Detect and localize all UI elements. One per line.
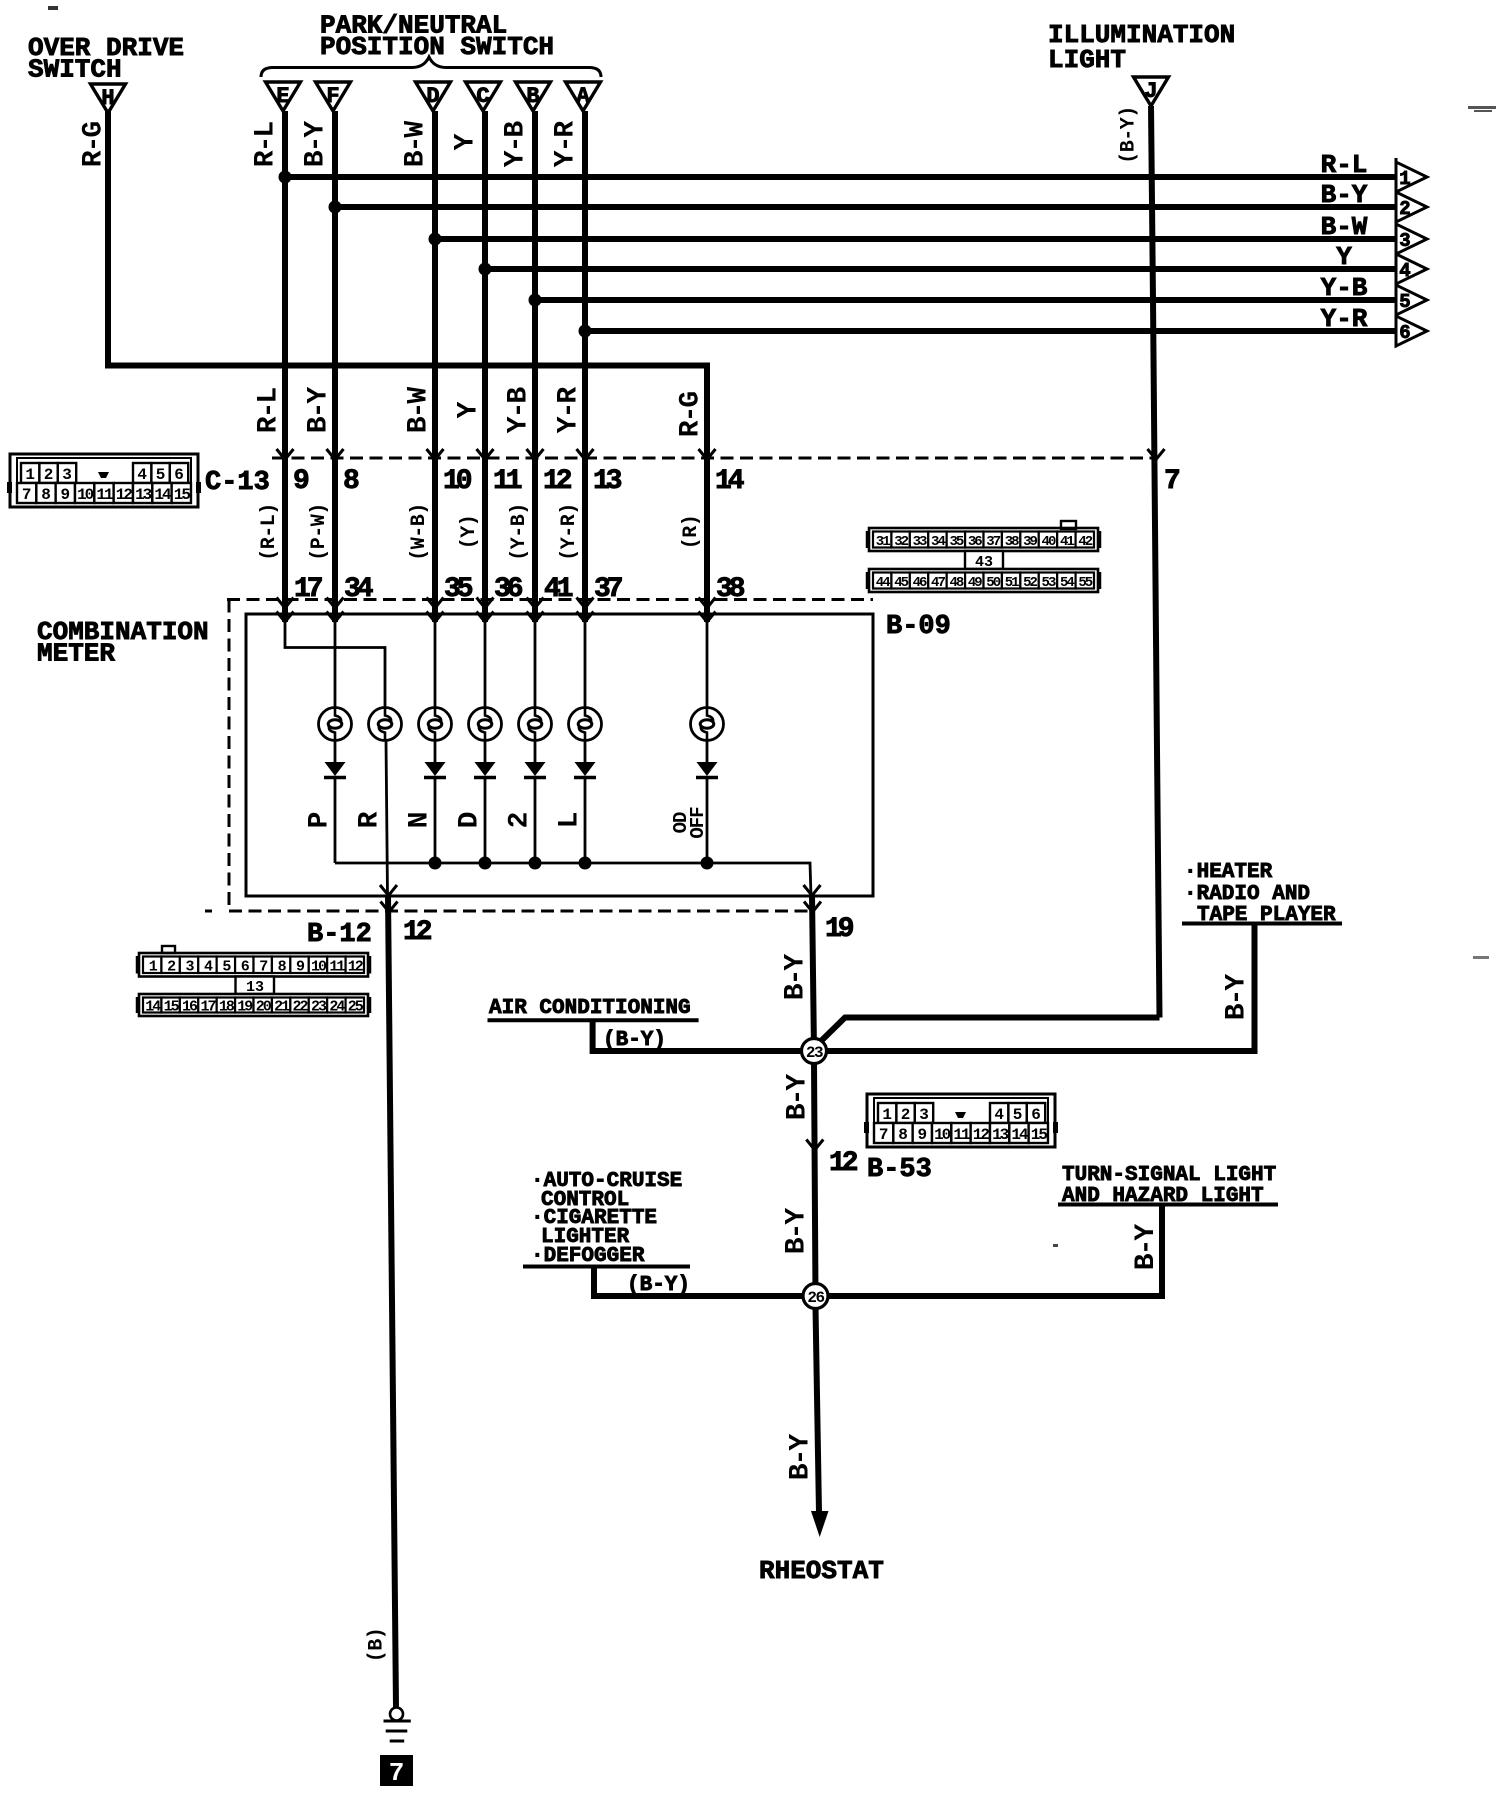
svg-text:(Y-R): (Y-R) xyxy=(558,503,581,561)
svg-text:11: 11 xyxy=(96,486,113,504)
svg-text:14: 14 xyxy=(1011,1126,1029,1144)
label B-Y above 23 xyxy=(781,954,812,1001)
wire lamp 2 to diode xyxy=(534,741,537,763)
wire Y horizontal to arrow 4 xyxy=(479,263,1397,276)
svg-text:Y-R: Y-R xyxy=(554,387,585,434)
chevron into meter dashed pin 36 xyxy=(477,598,494,609)
svg-text:13: 13 xyxy=(135,486,152,504)
svg-text:Y-B: Y-B xyxy=(501,121,532,168)
svg-text:OFF: OFF xyxy=(687,807,709,839)
wire pin35 to N lamp xyxy=(434,620,437,708)
chevron into meter box pin 38 xyxy=(699,612,716,623)
svg-text:39: 39 xyxy=(1023,534,1037,550)
svg-text:B-Y: B-Y xyxy=(782,1208,813,1255)
svg-text:12: 12 xyxy=(403,917,432,948)
wire radio/heater to junction 23 xyxy=(825,925,1255,1051)
wire lamp OD to diode xyxy=(706,741,709,763)
pin 7 C-13 xyxy=(1164,466,1179,497)
wire pin34 to P lamp xyxy=(334,620,337,708)
svg-text:RHEOSTAT: RHEOSTAT xyxy=(759,1556,884,1586)
svg-text:A: A xyxy=(576,84,590,109)
svg-text:18: 18 xyxy=(219,999,235,1016)
chevron into C-13 pin 7 xyxy=(1148,449,1165,460)
chevron into meter box pin 37 xyxy=(577,612,594,623)
svg-text:(B-Y): (B-Y) xyxy=(1118,106,1141,164)
label 2 lamp xyxy=(505,812,536,828)
label (Y-R) below C-13 xyxy=(558,503,581,561)
svg-text:44: 44 xyxy=(876,575,890,591)
svg-text:38: 38 xyxy=(1005,534,1019,550)
wire A vertical (Y-R) xyxy=(582,111,588,622)
wire diode L to bus xyxy=(584,779,587,863)
label (B-Y) air conditioning xyxy=(603,1029,666,1052)
pin 41 combination meter xyxy=(544,574,573,605)
svg-text:4: 4 xyxy=(994,1106,1004,1124)
label B-W at arrow 3 xyxy=(1321,212,1368,242)
svg-text:3: 3 xyxy=(62,466,72,484)
svg-text:9: 9 xyxy=(61,486,71,504)
label Y at arrow 4 xyxy=(1336,242,1352,272)
chevron B-53 pin 12 xyxy=(806,1140,823,1151)
svg-text:14: 14 xyxy=(145,999,161,1016)
svg-text:POSITION SWITCH: POSITION SWITCH xyxy=(320,32,554,62)
label R-L wire E xyxy=(251,122,282,168)
connector B-12 pin grid xyxy=(137,946,370,1016)
label B-W above C-13 xyxy=(404,387,435,434)
svg-text:B-Y: B-Y xyxy=(783,1074,814,1121)
wire diode OD to bus xyxy=(706,779,709,863)
pin 35 combination meter xyxy=(444,574,473,605)
svg-text:41: 41 xyxy=(544,574,573,605)
label (W-B) below C-13 xyxy=(408,503,431,561)
pin 17 combination meter xyxy=(294,574,322,605)
bus junction at x=435 xyxy=(429,857,442,870)
svg-text:J: J xyxy=(1144,79,1157,104)
label B-Y radio drop xyxy=(1222,974,1253,1021)
wire pin37 to L lamp xyxy=(584,620,587,708)
label B-W wire D xyxy=(401,121,432,168)
svg-text:N: N xyxy=(405,813,436,828)
label R-L above C-13 xyxy=(254,388,285,434)
label (R) below C-13 xyxy=(680,515,703,550)
wire lamp N to diode xyxy=(434,741,437,763)
svg-text:36: 36 xyxy=(968,534,982,550)
label R-L at arrow 1 xyxy=(1321,150,1368,180)
svg-text:13: 13 xyxy=(593,466,622,497)
label B-Y above 26 xyxy=(782,1208,813,1255)
label (P-W) below C-13 xyxy=(308,503,331,561)
connector J (illumination light) xyxy=(1134,77,1169,106)
label R-G (overdrive wire) xyxy=(79,122,110,168)
junction 23 xyxy=(802,1039,827,1064)
wire B-Y horizontal to arrow 2 xyxy=(329,201,1397,214)
svg-text:SWITCH: SWITCH xyxy=(28,55,122,85)
svg-text:(W-B): (W-B) xyxy=(408,503,431,561)
arrow 6 right edge xyxy=(1396,316,1427,346)
label (Y) below C-13 xyxy=(458,515,481,550)
svg-text:11: 11 xyxy=(493,466,522,497)
label B-Y wire F xyxy=(301,121,332,168)
svg-text:B-53: B-53 xyxy=(867,1155,932,1185)
svg-text:41: 41 xyxy=(1060,534,1074,550)
svg-text:C-13: C-13 xyxy=(205,468,270,498)
pin 38 combination meter xyxy=(716,574,745,605)
svg-text:23: 23 xyxy=(311,999,327,1016)
svg-text:7: 7 xyxy=(389,1758,405,1788)
chevron into meter dashed pin 17 xyxy=(277,598,294,609)
wire defogger to junction 26 xyxy=(594,1267,816,1297)
scan speckle top left xyxy=(48,6,58,10)
svg-text:55: 55 xyxy=(1078,575,1092,591)
svg-text:R-G: R-G xyxy=(676,392,707,438)
wire R-L horizontal to arrow 1 xyxy=(279,171,1397,184)
label B-Y at arrow 2 xyxy=(1321,180,1368,210)
wire turn-signal to junction 26 xyxy=(826,1205,1162,1297)
svg-text:8: 8 xyxy=(41,486,51,504)
svg-text:24: 24 xyxy=(329,999,345,1016)
svg-text:3: 3 xyxy=(1399,230,1410,252)
chevron into C-13 pin 14 xyxy=(699,449,716,460)
svg-text:Y-R: Y-R xyxy=(551,121,582,168)
svg-text:B-09: B-09 xyxy=(886,612,951,642)
svg-text:15: 15 xyxy=(1031,1126,1048,1144)
wire Y-R horizontal to arrow 6 xyxy=(579,325,1397,338)
label Y-B above C-13 xyxy=(504,387,535,434)
wire diode 2 to bus xyxy=(534,779,537,863)
svg-text:9: 9 xyxy=(918,1126,928,1144)
arrow 5 right edge xyxy=(1396,285,1427,315)
svg-text:Y: Y xyxy=(451,133,482,150)
svg-text:38: 38 xyxy=(716,574,745,605)
svg-text:5: 5 xyxy=(156,466,166,484)
label (B-Y) wire J xyxy=(1118,106,1141,164)
meter bus wire xyxy=(335,863,811,896)
wire F vertical (B-Y) xyxy=(332,111,338,622)
chevron into C-13 pin 13 xyxy=(577,449,594,460)
label PARK/NEUTRAL POSITION SWITCH xyxy=(320,10,554,62)
wire pin38 to OD lamp xyxy=(706,620,709,708)
svg-text:33: 33 xyxy=(913,534,927,550)
svg-text:37: 37 xyxy=(594,574,622,605)
wire lamp L to diode xyxy=(584,741,587,763)
chevron into C-13 pin 10 xyxy=(427,449,444,460)
lamp 2 xyxy=(519,708,552,741)
svg-text:47: 47 xyxy=(931,575,945,591)
svg-text:6: 6 xyxy=(1031,1106,1041,1124)
svg-text:B-Y: B-Y xyxy=(1222,974,1253,1021)
svg-text:7: 7 xyxy=(879,1126,889,1144)
svg-text:52: 52 xyxy=(1023,575,1037,591)
label OVER DRIVE SWITCH xyxy=(28,33,184,85)
label L lamp xyxy=(555,812,586,828)
label RHEOSTAT xyxy=(759,1556,884,1586)
svg-text:14: 14 xyxy=(154,486,172,504)
wire B vertical (Y-B) xyxy=(532,111,538,622)
connector H (over drive switch) xyxy=(91,84,126,113)
label B-Y turn-signal drop xyxy=(1131,1224,1162,1271)
svg-text:50: 50 xyxy=(986,575,1000,591)
lamp P xyxy=(319,708,352,741)
svg-text:23: 23 xyxy=(806,1044,823,1062)
arrow bar right edge xyxy=(1395,158,1398,347)
label Y-R wire A xyxy=(551,121,582,168)
svg-text:16: 16 xyxy=(182,999,198,1016)
svg-text:B-W: B-W xyxy=(1321,212,1368,242)
svg-text:12: 12 xyxy=(348,958,364,975)
wire B-12 to ground xyxy=(388,895,396,1708)
svg-text:(Y): (Y) xyxy=(458,515,481,550)
svg-text:19: 19 xyxy=(825,914,854,945)
wire 26 to rheostat xyxy=(816,1307,820,1513)
connector D xyxy=(416,82,451,111)
pin 36 combination meter xyxy=(494,574,523,605)
svg-text:12: 12 xyxy=(543,466,572,497)
svg-text:15: 15 xyxy=(164,999,180,1016)
junction 26 xyxy=(803,1284,828,1309)
svg-text:36: 36 xyxy=(494,574,523,605)
lamp OD xyxy=(691,708,724,741)
svg-text:53: 53 xyxy=(1042,575,1056,591)
svg-text:AIR CONDITIONING: AIR CONDITIONING xyxy=(489,997,691,1020)
label COMBINATION METER xyxy=(37,617,209,669)
diode D xyxy=(474,762,496,778)
svg-text:3: 3 xyxy=(919,1106,929,1124)
label P lamp xyxy=(305,812,336,828)
svg-text:D: D xyxy=(426,84,439,109)
connector F xyxy=(316,82,351,111)
wire R-G from H to C-13 xyxy=(108,111,707,622)
wire 23 to 26 xyxy=(814,1062,816,1296)
svg-text:32: 32 xyxy=(894,534,908,550)
svg-text:(R): (R) xyxy=(680,515,703,550)
chevron into meter box pin 34 xyxy=(327,612,344,623)
label (B) ground wire xyxy=(366,1628,389,1663)
svg-text:B-Y: B-Y xyxy=(304,387,335,434)
pin 9 C-13 xyxy=(293,466,309,497)
wire diode N to bus xyxy=(434,779,437,863)
chevron into C-13 pin 8 xyxy=(327,449,344,460)
svg-text:F: F xyxy=(326,84,339,109)
svg-text:17: 17 xyxy=(200,999,215,1016)
wire lamp P to diode xyxy=(334,741,337,763)
svg-text:(B): (B) xyxy=(366,1628,389,1663)
combination meter inner box xyxy=(246,614,873,896)
wire lamp D to diode xyxy=(484,741,487,763)
svg-text:25: 25 xyxy=(348,999,364,1016)
pin 12 B-53 xyxy=(829,1148,858,1179)
svg-text:METER: METER xyxy=(37,639,115,669)
label AUTO-CRUISE CIGARETTE DEFOGGER xyxy=(523,1170,690,1268)
label B-Y below 23 xyxy=(783,1074,814,1121)
label B-12 xyxy=(307,920,372,950)
label D lamp xyxy=(455,812,486,828)
wire pin19 to junction 23 xyxy=(812,895,814,1051)
pin 37 combination meter xyxy=(594,574,622,605)
wire pin17 dogleg to R lamp xyxy=(285,620,385,708)
svg-text:TURN-SIGNAL LIGHT: TURN-SIGNAL LIGHT xyxy=(1062,1164,1276,1187)
chevron into meter dashed pin 37 xyxy=(577,598,594,609)
svg-text:B-Y: B-Y xyxy=(1321,180,1368,210)
chevron into C-13 pin 9 xyxy=(277,449,294,460)
svg-text:B-Y: B-Y xyxy=(301,121,332,168)
wire pin41 to 2 lamp xyxy=(534,620,537,708)
svg-text:R-L: R-L xyxy=(254,388,285,434)
chevron into meter dashed pin 38 xyxy=(699,598,716,609)
label TURN-SIGNAL LIGHT AND HAZARD LIGHT xyxy=(1058,1164,1278,1208)
diode OD xyxy=(696,762,718,778)
scan speckle below turn-signal xyxy=(1053,1244,1058,1247)
label OD OFF xyxy=(670,807,709,839)
svg-text:2: 2 xyxy=(44,466,54,484)
lamp N xyxy=(419,708,452,741)
label B-53 xyxy=(867,1155,932,1185)
svg-text:34: 34 xyxy=(931,534,945,550)
ground ref box 7 xyxy=(380,1755,413,1788)
ground terminal circle xyxy=(390,1708,403,1721)
connector C-13 pin grid xyxy=(7,454,201,507)
pin 19 label xyxy=(825,914,854,945)
label Y-R above C-13 xyxy=(554,387,585,434)
svg-text:12: 12 xyxy=(116,486,133,504)
svg-text:7: 7 xyxy=(22,486,32,504)
chevron into meter box pin 41 xyxy=(527,612,544,623)
svg-text:42: 42 xyxy=(1078,534,1092,550)
svg-text:R-L: R-L xyxy=(1321,150,1368,180)
svg-text:7: 7 xyxy=(259,958,267,975)
svg-text:1: 1 xyxy=(882,1106,892,1124)
scan speckle mid right xyxy=(1473,956,1489,959)
svg-text:B-12: B-12 xyxy=(307,920,372,950)
diode P xyxy=(324,762,346,778)
lamp L xyxy=(569,708,602,741)
svg-text:B-W: B-W xyxy=(401,121,432,168)
label (B-Y) defogger xyxy=(627,1274,690,1297)
svg-text:6: 6 xyxy=(174,466,184,484)
svg-text:35: 35 xyxy=(444,574,473,605)
svg-text:21: 21 xyxy=(274,999,290,1016)
diode L xyxy=(574,762,596,778)
diode N xyxy=(424,762,446,778)
diode 2 xyxy=(524,762,546,778)
chevron into meter box pin 36 xyxy=(477,612,494,623)
bus junction at x=485 xyxy=(479,857,492,870)
svg-text:(P-W): (P-W) xyxy=(308,503,331,561)
label (Y-B) below C-13 xyxy=(508,503,531,561)
connector B xyxy=(516,82,551,111)
svg-text:1: 1 xyxy=(1399,168,1410,190)
svg-text:L: L xyxy=(555,812,586,828)
label Y-R at arrow 6 xyxy=(1321,304,1368,334)
label Y-B at arrow 5 xyxy=(1321,273,1368,303)
svg-text:6: 6 xyxy=(1399,322,1410,344)
dashed line C-13 xyxy=(272,457,1153,460)
chevron into meter dashed pin 34 xyxy=(327,598,344,609)
svg-text:11: 11 xyxy=(953,1126,970,1144)
brace over park/neutral switch connectors xyxy=(261,57,601,77)
svg-text:54: 54 xyxy=(1060,575,1074,591)
pin 12 B-12 xyxy=(403,917,432,948)
svg-text:R: R xyxy=(355,811,386,828)
wire diode D to bus xyxy=(484,779,487,863)
bus junction at x=585 xyxy=(579,857,592,870)
svg-text:45: 45 xyxy=(894,575,908,591)
svg-text:10: 10 xyxy=(77,486,94,504)
svg-text:4: 4 xyxy=(1399,260,1410,282)
svg-text:B: B xyxy=(526,84,539,109)
svg-text:40: 40 xyxy=(1042,534,1056,550)
label C-13 xyxy=(205,468,270,498)
bus junction at x=535 xyxy=(529,857,542,870)
svg-text:11: 11 xyxy=(329,958,345,975)
combination meter dashed box xyxy=(205,600,873,912)
wire air conditioning to junction 23 xyxy=(593,1020,814,1051)
pin 11 C-13 xyxy=(493,466,522,497)
svg-text:31: 31 xyxy=(876,534,890,550)
pin 12 C-13 xyxy=(543,466,572,497)
svg-text:13: 13 xyxy=(992,1126,1009,1144)
lamp R xyxy=(369,708,402,741)
label ILLUMINATION LIGHT xyxy=(1048,20,1235,75)
svg-text:Y: Y xyxy=(454,401,485,418)
svg-text:4: 4 xyxy=(137,466,147,484)
pin 8 C-13 xyxy=(343,466,359,497)
svg-text:LIGHT: LIGHT xyxy=(1048,45,1126,75)
wire B-W horizontal to arrow 3 xyxy=(429,233,1397,246)
svg-text:P: P xyxy=(305,812,336,828)
svg-text:12: 12 xyxy=(973,1126,990,1144)
wire diode P to bus xyxy=(334,779,337,863)
svg-text:Y: Y xyxy=(1336,242,1352,272)
arrow to rheostat xyxy=(811,1511,829,1537)
svg-text:2: 2 xyxy=(901,1106,911,1124)
label B-Y above rheostat xyxy=(786,1434,817,1481)
svg-text:B-Y: B-Y xyxy=(786,1434,817,1481)
label AIR CONDITIONING xyxy=(488,997,699,1020)
ground symbol xyxy=(384,1721,411,1741)
svg-text:B-Y: B-Y xyxy=(1131,1224,1162,1271)
svg-text:15: 15 xyxy=(174,486,191,504)
svg-text:34: 34 xyxy=(344,574,373,605)
svg-text:·HEATER: ·HEATER xyxy=(1184,861,1273,884)
svg-text:48: 48 xyxy=(949,575,963,591)
label B-Y above C-13 xyxy=(304,387,335,434)
label R-G above C-13 xyxy=(676,392,707,438)
svg-text:·RADIO AND: ·RADIO AND xyxy=(1184,883,1310,906)
chevron into C-13 pin 11 xyxy=(477,449,494,460)
arrow 1 right edge xyxy=(1396,162,1427,192)
label N lamp xyxy=(405,813,436,828)
svg-text:5: 5 xyxy=(1013,1106,1023,1124)
svg-text:49: 49 xyxy=(968,575,982,591)
svg-text:(R-L): (R-L) xyxy=(258,503,281,561)
arrow 3 right edge xyxy=(1396,224,1427,254)
connector E xyxy=(266,82,301,111)
svg-text:2: 2 xyxy=(1399,198,1410,220)
label B-09 xyxy=(886,612,951,642)
label (R-L) below C-13 xyxy=(258,503,281,561)
arrow 4 right edge xyxy=(1396,254,1427,284)
pin 14 C-13 xyxy=(715,466,744,497)
wire Y-B horizontal to arrow 5 xyxy=(529,294,1397,307)
svg-text:46: 46 xyxy=(913,575,927,591)
svg-text:10: 10 xyxy=(934,1126,951,1144)
pin 13 C-13 xyxy=(593,466,622,497)
wire pin36 to D lamp xyxy=(484,620,487,708)
connector A xyxy=(566,82,601,111)
chevron into meter dashed pin 35 xyxy=(427,598,444,609)
svg-text:Y-B: Y-B xyxy=(1321,273,1368,303)
svg-text:Y-B: Y-B xyxy=(504,387,535,434)
